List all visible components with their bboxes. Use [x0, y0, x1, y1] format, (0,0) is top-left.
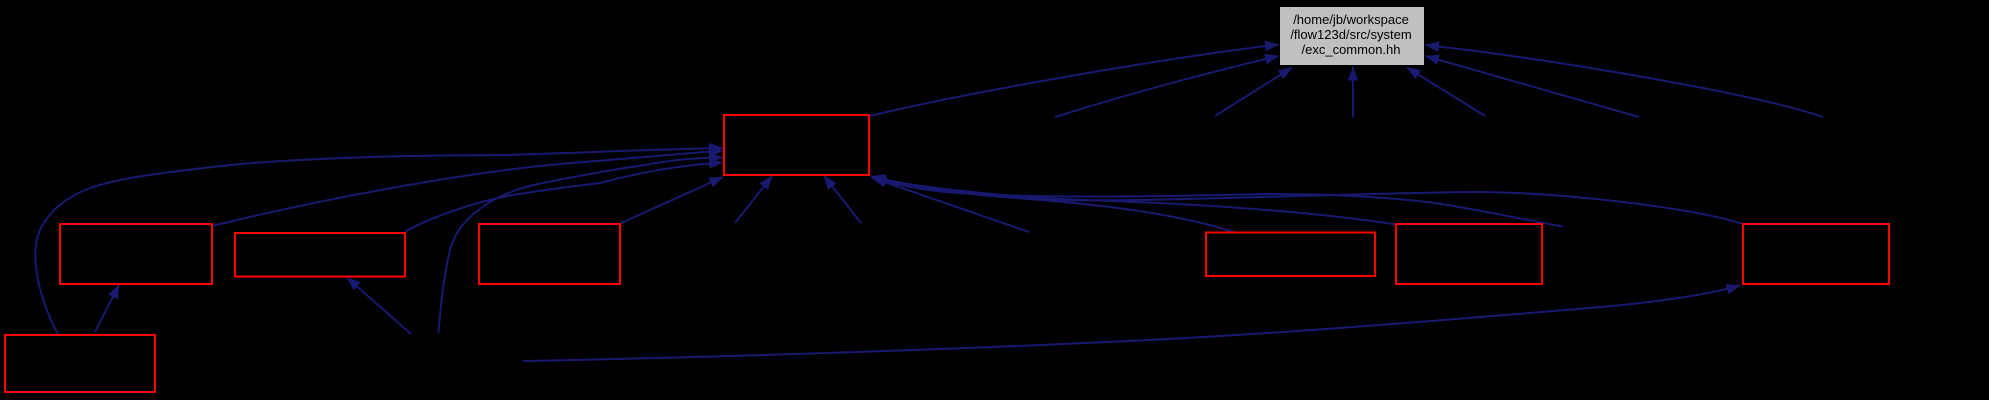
- svg-text:/flow123d/src/system: /flow123d/src/system: [1290, 27, 1411, 42]
- svg-text:/home/jb/workspace: /home/jb/workspace: [1293, 12, 1409, 27]
- svg-text:/exc_common.hh: /exc_common.hh: [1302, 42, 1401, 57]
